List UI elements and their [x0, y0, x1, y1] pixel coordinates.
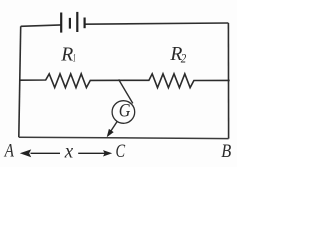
svg-text:x: x [64, 141, 74, 162]
svg-text:B: B [221, 141, 231, 162]
svg-text:C: C [116, 142, 126, 162]
svg-text:2: 2 [181, 51, 187, 65]
svg-text:R: R [60, 43, 73, 65]
svg-text:1: 1 [73, 51, 76, 65]
svg-text:A: A [3, 142, 15, 162]
svg-text:G: G [119, 101, 131, 122]
